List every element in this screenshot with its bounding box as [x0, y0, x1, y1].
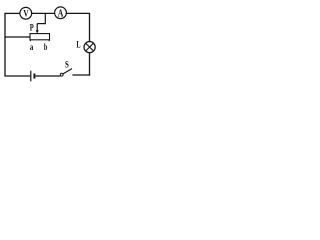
wire top rail left segment — [4, 12, 20, 14]
wire bottom rail left segment — [4, 75, 30, 77]
switch S — [60, 69, 72, 77]
battery cell — [31, 71, 35, 82]
wire right rail lower — [89, 53, 91, 76]
svg-text:L: L — [76, 40, 80, 50]
wire top rail right segment — [66, 12, 90, 14]
wire middle branch to rheostat — [4, 36, 30, 38]
rheostat body — [30, 34, 50, 42]
svg-text:P: P — [30, 23, 34, 33]
wire bottom rail middle segment — [35, 75, 60, 77]
svg-text:S: S — [65, 60, 69, 70]
wire left rail vertical — [4, 13, 6, 76]
svg-text:V: V — [23, 8, 29, 18]
svg-text:b: b — [44, 42, 48, 52]
voltmeter V — [20, 7, 32, 19]
slider P arrow — [36, 24, 39, 34]
wire slider horizontal segment — [37, 23, 45, 25]
wire right rail upper — [89, 13, 91, 41]
wire bottom rail right segment — [72, 74, 90, 76]
svg-text:A: A — [58, 8, 64, 19]
svg-text:a: a — [30, 42, 34, 52]
wire top rail middle segment — [32, 12, 55, 14]
wire junction drop from top rail — [44, 13, 46, 24]
lamp L — [84, 42, 95, 53]
ammeter A — [55, 7, 67, 19]
